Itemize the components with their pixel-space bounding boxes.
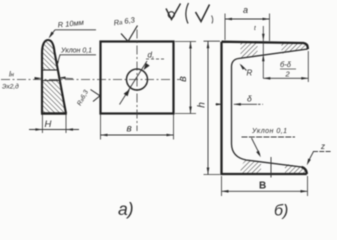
svg-text:В: В bbox=[259, 181, 266, 192]
dimension H bbox=[41, 115, 43, 134]
svg-text:в: в bbox=[177, 76, 189, 82]
svg-text:d,: d, bbox=[148, 51, 155, 60]
check mark bbox=[196, 5, 210, 22]
punch hatch upper region bbox=[40, 38, 70, 114]
channel hatch D (bottom flange tip) bbox=[285, 164, 307, 174]
channel hatch B (top flange tip) bbox=[282, 43, 308, 54]
svg-text:lн: lн bbox=[9, 70, 15, 79]
punch band line upper bbox=[42, 69, 58, 71]
close paren (faint) bbox=[212, 16, 213, 24]
dimension a top bbox=[224, 14, 226, 41]
diameter leader 45deg bbox=[120, 61, 148, 105]
svg-text:R: R bbox=[247, 69, 253, 78]
svg-text:H: H bbox=[45, 119, 52, 130]
svg-text:Уклон 0,1: Уклон 0,1 bbox=[251, 128, 288, 135]
svg-text:а): а) bbox=[118, 199, 134, 219]
arrow at punch right edge bbox=[58, 77, 66, 80]
svg-text:2: 2 bbox=[285, 70, 291, 79]
flange thickness t tick bbox=[262, 26, 264, 79]
punch outline bbox=[42, 40, 66, 114]
punch bottom edge bbox=[41, 112, 67, 114]
svg-text:h: h bbox=[197, 102, 208, 108]
svg-text:t: t bbox=[254, 25, 257, 32]
bottom flange measurement tick bbox=[270, 157, 272, 178]
svg-text:δ: δ bbox=[247, 94, 252, 104]
punch hatch lower region bbox=[40, 81, 70, 114]
dimension B bottom bbox=[221, 176, 223, 196]
svg-text:б-δ: б-δ bbox=[280, 60, 292, 69]
dimension v right side bbox=[175, 41, 196, 43]
horizontal centerline / dimension line through punch bbox=[1, 79, 181, 81]
svg-text:б): б) bbox=[274, 203, 288, 220]
dimension b bottom bbox=[100, 115, 102, 140]
channel hatch C (bottom flange near web) bbox=[240, 160, 261, 173]
dimension h left of channel bbox=[204, 40, 221, 42]
svg-text:в: в bbox=[127, 124, 132, 135]
svg-text:R 10мм: R 10мм bbox=[57, 18, 84, 30]
svg-text:z: z bbox=[320, 142, 325, 151]
svg-text:Ra 6,3: Ra 6,3 bbox=[113, 15, 136, 27]
hole circle bbox=[127, 69, 148, 90]
svg-text:а: а bbox=[243, 5, 248, 15]
web thickness delta bbox=[216, 103, 222, 105]
arrow at punch left edge bbox=[35, 77, 43, 80]
svg-text:Эх2,д: Эх2,д bbox=[2, 83, 19, 91]
punch band line lower bbox=[42, 80, 60, 82]
svg-text:Ra6,3: Ra6,3 bbox=[76, 89, 90, 107]
channel inner contour bbox=[232, 49, 308, 167]
vertical centerline bbox=[136, 30, 138, 132]
dimension (b-d)/2 bbox=[307, 51, 309, 82]
open paren bbox=[186, 3, 189, 24]
svg-text:Уклон 0,1: Уклон 0,1 bbox=[60, 48, 92, 55]
check with circle bbox=[166, 4, 181, 20]
channel outer contour bbox=[222, 42, 308, 174]
channel hatch A (top flange near web) bbox=[241, 42, 258, 58]
plate square bbox=[101, 42, 174, 114]
